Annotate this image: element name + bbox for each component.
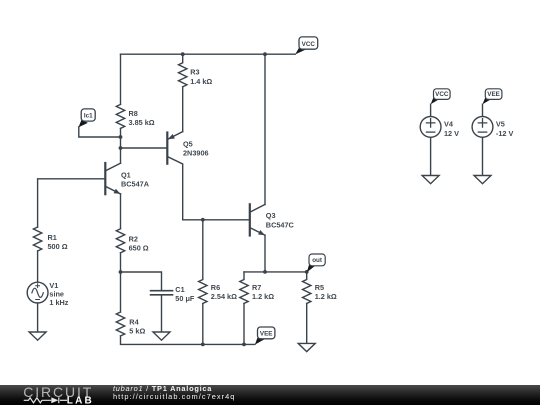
junction dot top rail Q3 collector: [263, 52, 267, 56]
svg-text:500 Ω: 500 Ω: [48, 242, 68, 251]
svg-text:1.4 kΩ: 1.4 kΩ: [190, 77, 212, 86]
svg-text:VEE: VEE: [487, 91, 500, 98]
resistor R3: [179, 54, 213, 87]
ground V4: [422, 176, 439, 184]
wire Q5 base from column: [121, 147, 167, 149]
svg-text:12 V: 12 V: [444, 129, 459, 138]
svg-text:R7: R7: [252, 283, 261, 292]
ground V5: [474, 176, 491, 184]
wire R3 bottom to Q5 emitter: [182, 87, 184, 132]
svg-text:R2: R2: [129, 234, 138, 243]
svg-text:2.54 kΩ: 2.54 kΩ: [211, 292, 237, 301]
svg-text:R3: R3: [190, 68, 199, 77]
svg-text:5 kΩ: 5 kΩ: [129, 327, 145, 336]
svg-text:out: out: [312, 257, 323, 264]
junction dot R7 bottom: [242, 343, 246, 347]
node out flag: [307, 254, 325, 272]
resistor R8: [116, 104, 154, 128]
wire R1 to V1: [37, 251, 39, 282]
svg-text:Ic1: Ic1: [84, 112, 93, 119]
wire Q1 base: [38, 179, 106, 227]
svg-text:R8: R8: [129, 109, 138, 118]
transistor Q1 emitter wire to R2: [120, 194, 122, 229]
svg-text:R4: R4: [129, 317, 139, 326]
svg-text:2N3906: 2N3906: [183, 149, 209, 158]
svg-text:BC547C: BC547C: [266, 220, 295, 229]
transistor Q3: [250, 204, 295, 235]
wire left column R8 top: [120, 54, 122, 104]
junction dot R8-Ic1: [119, 135, 123, 139]
junction dot out tap: [305, 270, 309, 274]
transistor Q1: [105, 163, 149, 194]
capacitor C1: [151, 285, 195, 303]
wire V1 to ground: [37, 303, 39, 332]
node VEE flag of V5: [483, 89, 502, 104]
resistor R2: [116, 229, 149, 253]
wire top VCC rail: [121, 53, 296, 55]
svg-text:Q1: Q1: [121, 170, 131, 179]
CircuitLab logo: [0, 385, 100, 405]
node Ic1 flag: [79, 109, 96, 127]
svg-text:-12 V: -12 V: [496, 129, 514, 138]
source V1: [27, 281, 69, 307]
node VCC flag top right: [295, 37, 318, 55]
resistor R5: [303, 272, 337, 304]
wire R7 bottom: [243, 304, 245, 345]
wire V4 top: [430, 104, 432, 116]
wire R5 to ground: [306, 304, 308, 344]
junction dot R6 bottom: [201, 343, 205, 347]
svg-text:Q5: Q5: [183, 139, 193, 148]
wire Ic1 stub: [79, 127, 121, 137]
svg-text:1 kHz: 1 kHz: [49, 298, 68, 307]
svg-text:50 μF: 50 μF: [175, 294, 195, 303]
svg-text:VCC: VCC: [302, 41, 316, 48]
resistor R1: [33, 227, 67, 251]
resistor R7: [240, 272, 274, 304]
junction dot C1 branch: [119, 270, 123, 274]
wire V5 to ground: [482, 137, 484, 175]
footer text: [113, 385, 235, 402]
svg-text:V5: V5: [496, 120, 505, 129]
svg-text:1.2 kΩ: 1.2 kΩ: [315, 292, 337, 301]
svg-text:C1: C1: [175, 285, 184, 294]
wire V5 top: [482, 104, 484, 116]
svg-text:3.85 kΩ: 3.85 kΩ: [129, 118, 155, 127]
node VCC flag of V4: [431, 89, 451, 104]
svg-text:650 Ω: 650 Ω: [129, 244, 149, 253]
wire R8 bottom to Q1 collector: [120, 128, 122, 163]
ground C1: [153, 332, 170, 340]
wire out rail: [244, 271, 307, 273]
svg-text:VCC: VCC: [435, 91, 449, 98]
svg-text:R1: R1: [48, 233, 57, 242]
wire V4 to ground: [430, 137, 432, 175]
footer bar: [0, 385, 540, 405]
resistor R4: [116, 312, 145, 336]
source V5: [472, 117, 513, 138]
junction dot Q3 emitter: [263, 270, 267, 274]
wire R2 bottom to R4: [120, 253, 122, 312]
svg-text:LAB: LAB: [67, 396, 94, 405]
svg-text:R5: R5: [315, 283, 324, 292]
junction dot top rail R3: [181, 52, 185, 56]
svg-text:R6: R6: [211, 283, 220, 292]
wire Q3 collector to top rail: [264, 54, 266, 204]
source V4: [420, 117, 459, 138]
ground V1: [29, 332, 46, 340]
junction dot Q5 base tap: [119, 146, 123, 150]
svg-text:1.2 kΩ: 1.2 kΩ: [252, 292, 274, 301]
svg-text:Q3: Q3: [266, 211, 276, 220]
resistor R6: [199, 220, 237, 304]
node VEE flag bottom: [255, 327, 275, 345]
svg-text:VEE: VEE: [260, 330, 273, 337]
wire R6 bottom: [202, 304, 204, 345]
wire C1 to ground: [161, 295, 163, 332]
wire Q5 collector to Q3 base: [183, 219, 250, 221]
ground R5: [298, 343, 315, 351]
wire bottom VEE rail: [121, 336, 255, 344]
svg-text:V4: V4: [444, 120, 454, 129]
junction dot R6 top: [201, 218, 205, 222]
transistor Q5: [167, 132, 208, 220]
svg-text:BC547A: BC547A: [121, 180, 150, 189]
wire Q3 emitter down: [264, 235, 266, 272]
wire C1 branch: [121, 272, 162, 290]
